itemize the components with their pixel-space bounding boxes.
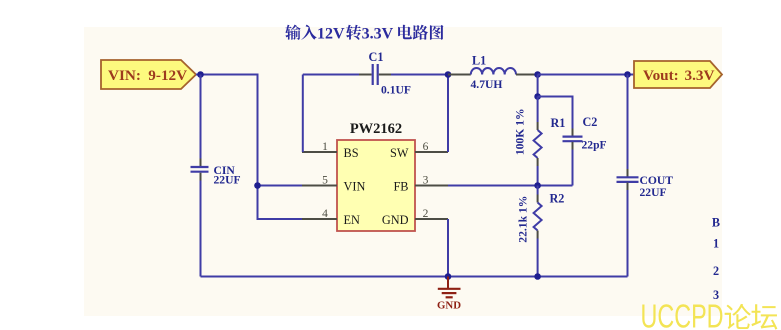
svg-text:3.3V: 3.3V: [685, 67, 715, 84]
power port Vout 3.3V: [634, 61, 722, 88]
svg-text:6: 6: [423, 141, 429, 153]
node GND junction: [445, 273, 452, 280]
node label column B123: [712, 216, 720, 302]
svg-text:22UF: 22UF: [640, 186, 667, 199]
wire VIN rail top: [196, 75, 302, 220]
resistor R2 22.1k 1%: [517, 186, 565, 277]
svg-text:C1: C1: [369, 50, 384, 64]
wire COUT bottom: [627, 190, 629, 277]
svg-text:4: 4: [322, 208, 328, 220]
wire CIN bottom: [200, 181, 202, 277]
svg-text:VIN:: VIN:: [108, 67, 141, 84]
wire L1 node down: [537, 75, 539, 97]
wire ground rail: [201, 276, 628, 278]
capacitor CIN 22UF: [191, 159, 241, 187]
pin 4 EN: [302, 208, 337, 220]
resistor R1 100K 1%: [514, 97, 566, 186]
node VIN junction at flag: [197, 71, 204, 78]
ground GND symbol: [437, 277, 461, 312]
svg-text:R2: R2: [550, 191, 565, 205]
svg-text:3.3V: 3.3V: [362, 25, 394, 42]
svg-text:UCCPD: UCCPD: [641, 298, 724, 330]
wire VIN to pin 5: [258, 185, 303, 187]
svg-text:R1: R1: [551, 116, 566, 130]
svg-text:L1: L1: [472, 54, 486, 68]
node R1/C2 top junction: [534, 93, 541, 100]
node FB junction: [534, 182, 541, 189]
svg-text:100K 1%: 100K 1%: [514, 108, 527, 155]
node VIN/EN junction: [254, 182, 261, 189]
svg-text:COUT: COUT: [640, 174, 674, 187]
wire FB rail: [448, 185, 573, 187]
pin 1 BS: [302, 141, 337, 153]
node SW junction: [445, 71, 452, 78]
svg-text:SW: SW: [390, 146, 409, 160]
wire GND pin vertical: [447, 219, 449, 277]
svg-text:BS: BS: [344, 146, 359, 160]
power port VIN 9-12V: [101, 60, 196, 89]
IC U1 PW2162: [337, 121, 415, 231]
wire C1 left: [303, 74, 359, 76]
svg-text:1: 1: [713, 237, 719, 251]
title: 输入12V转3.3V电路图: [285, 25, 443, 43]
svg-text:GND: GND: [437, 299, 461, 311]
svg-text:1: 1: [322, 141, 328, 153]
svg-text:Vout:: Vout:: [643, 67, 679, 84]
wire SW vertical: [447, 75, 449, 153]
wire BS vertical: [302, 75, 304, 153]
pin 3 FB: [415, 175, 448, 187]
svg-text:22.1k 1%: 22.1k 1%: [517, 196, 530, 243]
node R2 bottom junction: [534, 273, 541, 280]
svg-text:5: 5: [322, 175, 328, 187]
capacitor COUT 22UF: [617, 75, 674, 200]
svg-text:12V: 12V: [317, 25, 345, 42]
capacitor C2 22pF: [538, 97, 607, 186]
svg-text:3: 3: [423, 175, 429, 187]
svg-text:2: 2: [713, 264, 719, 278]
svg-text:B: B: [712, 216, 720, 230]
node COUT junction: [624, 71, 631, 78]
svg-text:22UF: 22UF: [214, 174, 241, 187]
pin 6 SW: [415, 141, 448, 153]
svg-text:GND: GND: [382, 213, 409, 227]
wire CIN vertical top: [200, 75, 202, 159]
wire C1 right: [391, 74, 448, 76]
svg-text:22pF: 22pF: [582, 139, 607, 152]
svg-text:0.1UF: 0.1UF: [381, 84, 411, 97]
wire Vout rail: [538, 74, 634, 76]
svg-text:9-12V: 9-12V: [148, 67, 187, 84]
svg-text:VIN: VIN: [344, 180, 366, 194]
inductor L1 4.7UH: [448, 54, 538, 91]
pin 2 GND: [415, 208, 448, 220]
svg-text:EN: EN: [344, 213, 361, 227]
svg-text:4.7UH: 4.7UH: [471, 78, 503, 91]
node L1 output: [534, 71, 541, 78]
watermark UCCPD forum: [641, 298, 778, 330]
svg-text:2: 2: [423, 208, 429, 220]
svg-text:C2: C2: [583, 115, 598, 129]
svg-text:FB: FB: [393, 180, 408, 194]
svg-text:PW2162: PW2162: [350, 121, 402, 137]
capacitor C1 0.1UF: [359, 50, 411, 97]
pin 5 VIN: [302, 175, 337, 187]
